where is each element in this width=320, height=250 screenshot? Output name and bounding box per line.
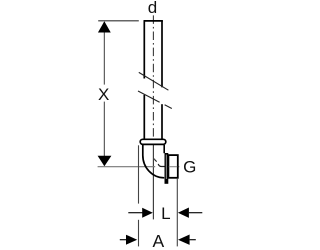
svg-text:A: A (152, 231, 164, 250)
svg-text:G: G (183, 157, 196, 176)
svg-text:L: L (161, 204, 170, 223)
svg-text:X: X (98, 85, 109, 104)
svg-text:d: d (148, 0, 157, 17)
